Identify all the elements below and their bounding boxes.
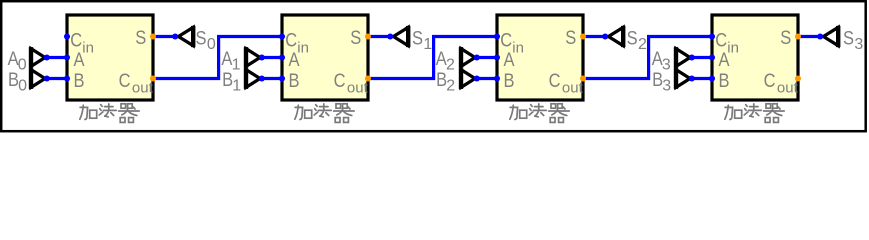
wire A0 to U1.A (47, 56, 67, 59)
svg-text:S: S (843, 28, 854, 49)
U3 pin Cin (input dot) (494, 33, 500, 39)
U2 pin S (output dot) (365, 33, 371, 39)
wire U2.S to S1 (368, 35, 390, 38)
U2 pin Cout (output dot) (365, 75, 371, 81)
U3 pin B (input dot) (494, 75, 500, 81)
output port S3 triangle (823, 27, 838, 45)
wire U1.Cout to U2.Cin (carry) (153, 37, 282, 79)
svg-text:1: 1 (232, 78, 241, 95)
svg-text:B: B (504, 71, 515, 92)
output port S1 triangle (393, 27, 408, 45)
input port B1 triangle (246, 70, 260, 88)
svg-text:out: out (132, 79, 154, 96)
input port A0 triangle (31, 49, 45, 67)
U3 pin A (input dot) (494, 54, 500, 60)
svg-text:B: B (719, 71, 730, 92)
U4 pin A (input dot) (709, 54, 715, 60)
node B0 output dot (44, 75, 50, 81)
input port A3 triangle (676, 49, 690, 67)
svg-text:C: C (334, 71, 346, 92)
svg-text:B: B (289, 71, 300, 92)
svg-text:S: S (135, 28, 146, 49)
wire B2 to U3.B (477, 77, 497, 80)
U1 pin B (input dot) (64, 75, 70, 81)
svg-text:C: C (549, 71, 561, 92)
svg-text:2: 2 (446, 57, 455, 74)
svg-text:S: S (627, 28, 638, 49)
U2 pin B (input dot) (279, 75, 285, 81)
node S3 input dot (817, 33, 823, 39)
node B2 output dot (474, 75, 480, 81)
wire B1 to U2.B (262, 77, 282, 80)
node A2 output dot (474, 54, 480, 60)
adder block U4 (加法器) (712, 15, 798, 100)
wire U1.S to S0 (153, 35, 175, 38)
svg-text:0: 0 (18, 57, 27, 74)
wire A2 to U3.A (477, 56, 497, 59)
output port S0 triangle (178, 27, 193, 45)
U1 pin S (output dot) (150, 33, 156, 39)
adder block U2 (加法器) (282, 15, 368, 100)
svg-text:A: A (719, 50, 730, 71)
svg-text:A: A (74, 50, 85, 71)
svg-text:3: 3 (662, 57, 671, 74)
border frame (1, 1, 866, 131)
svg-text:3: 3 (662, 78, 671, 95)
svg-text:C: C (715, 30, 727, 51)
node S0 input dot (172, 33, 178, 39)
wire B3 to U4.B (692, 77, 712, 80)
svg-text:out: out (347, 79, 369, 96)
label 加法器 (adder) under U3 (510, 104, 569, 123)
svg-text:S: S (196, 28, 207, 49)
adder block U3 (加法器) (497, 15, 583, 100)
wire A3 to U4.A (692, 56, 712, 59)
svg-text:S: S (565, 28, 576, 49)
U3 pin Cout (output dot) (580, 75, 586, 81)
U2 pin A (input dot) (279, 54, 285, 60)
node A1 output dot (259, 54, 265, 60)
U4 pin B (input dot) (709, 75, 715, 81)
input port B0 triangle (31, 70, 45, 88)
svg-text:A: A (504, 50, 515, 71)
wire U2.Cout to U3.Cin (carry) (368, 37, 497, 79)
svg-text:C: C (764, 71, 776, 92)
input port A2 triangle (461, 49, 475, 67)
U4 pin Cout (output dot) (795, 75, 801, 81)
input port B3 triangle (676, 70, 690, 88)
svg-text:S: S (780, 28, 791, 49)
U1 pin A (input dot) (64, 54, 70, 60)
label 加法器 (adder) under U4 (725, 104, 784, 123)
U4 pin S (output dot) (795, 33, 801, 39)
output port S2 triangle (608, 27, 623, 45)
svg-text:C: C (119, 71, 131, 92)
U3 pin S (output dot) (580, 33, 586, 39)
svg-text:S: S (412, 28, 423, 49)
adder block U1 (加法器) (67, 15, 153, 100)
svg-text:S: S (350, 28, 361, 49)
node B1 output dot (259, 75, 265, 81)
svg-text:A: A (289, 50, 300, 71)
U2 pin Cin (input dot) (279, 33, 285, 39)
wire A1 to U2.A (262, 56, 282, 59)
svg-text:2: 2 (638, 36, 647, 53)
svg-text:C: C (70, 30, 82, 51)
node A3 output dot (689, 54, 695, 60)
svg-text:C: C (285, 30, 297, 51)
node S1 input dot (387, 33, 393, 39)
node B3 output dot (689, 75, 695, 81)
wire U3.Cout to U4.Cin (carry) (583, 37, 712, 79)
svg-text:1: 1 (423, 36, 432, 53)
node S2 input dot (602, 33, 608, 39)
svg-text:0: 0 (18, 78, 27, 95)
U1 pin Cout (output dot) (150, 75, 156, 81)
svg-text:2: 2 (446, 78, 455, 95)
wire U4.S to S3 (798, 35, 820, 38)
svg-text:0: 0 (207, 36, 216, 53)
U4 pin Cin (input dot) (709, 33, 715, 39)
svg-text:out: out (562, 79, 584, 96)
label 加法器 (adder) under U2 (295, 104, 354, 123)
input port B2 triangle (461, 70, 475, 88)
svg-text:B: B (74, 71, 85, 92)
U1 pin Cin (input dot) (64, 33, 70, 39)
label 加法器 (adder) under U1 (80, 104, 139, 123)
svg-text:out: out (777, 79, 799, 96)
svg-text:3: 3 (854, 36, 863, 53)
wire B0 to U1.B (47, 77, 67, 80)
svg-text:C: C (500, 30, 512, 51)
node A0 output dot (44, 54, 50, 60)
input port A1 triangle (246, 49, 260, 67)
wire U3.S to S2 (583, 35, 605, 38)
